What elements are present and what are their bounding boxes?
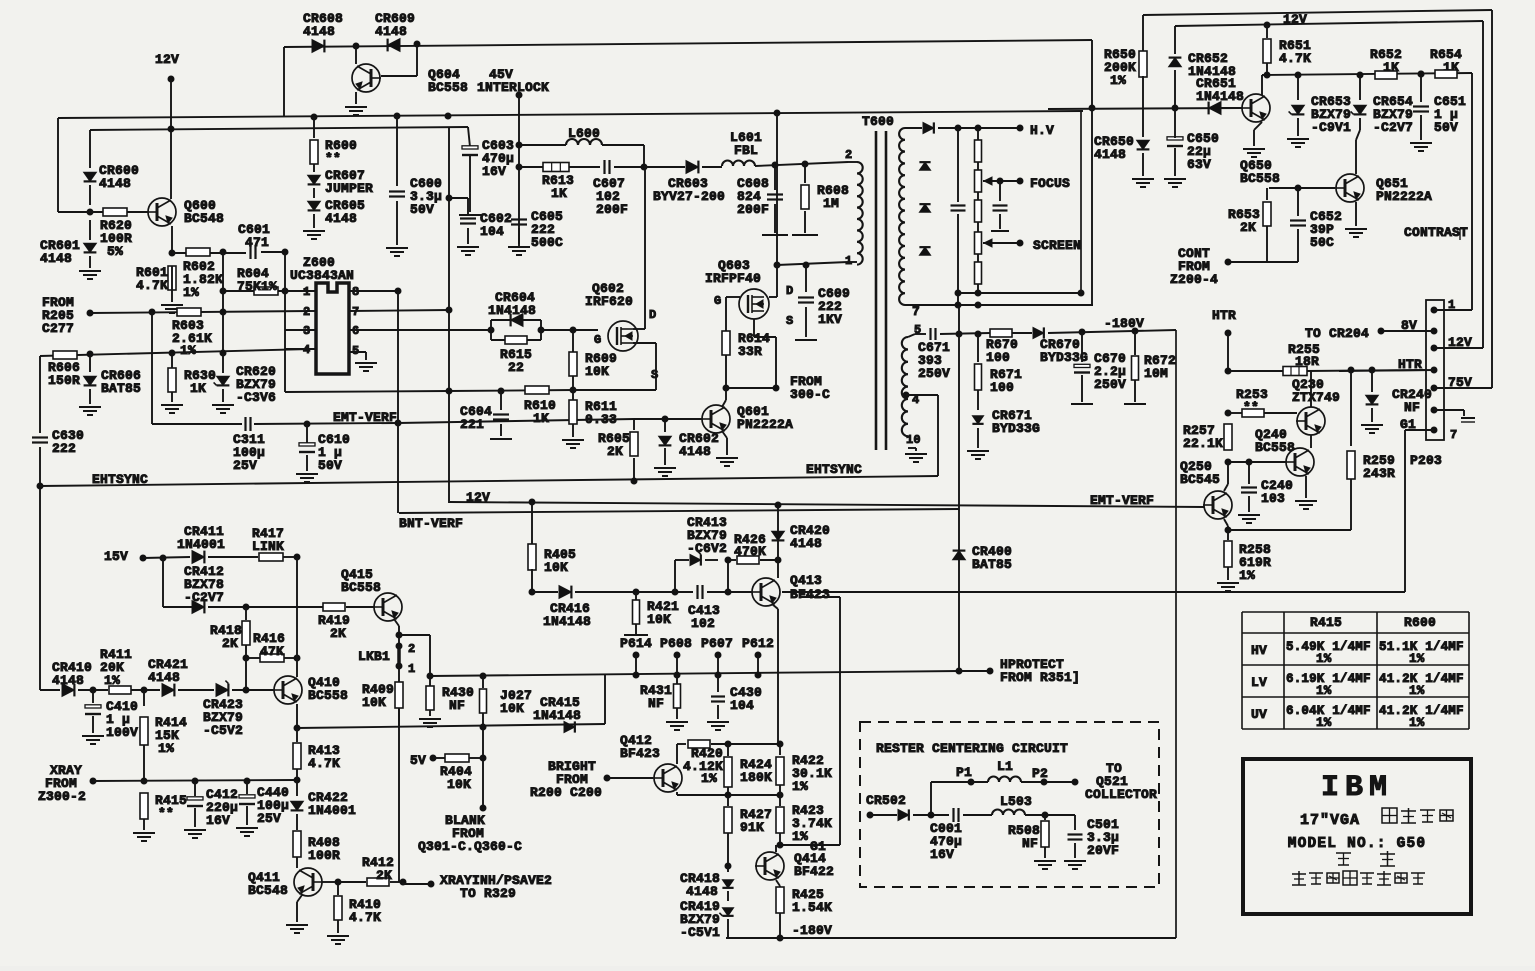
svg-text:NF: NF xyxy=(1022,836,1038,851)
svg-text:100R: 100R xyxy=(308,848,340,863)
svg-text:**: ** xyxy=(325,151,341,166)
svg-text:10K: 10K xyxy=(647,612,671,627)
svg-text:3: 3 xyxy=(303,324,310,338)
svg-text:NF: NF xyxy=(449,698,465,713)
svg-text:2K: 2K xyxy=(1240,220,1256,235)
svg-text:18R: 18R xyxy=(1295,354,1319,369)
svg-text:200F: 200F xyxy=(596,202,628,217)
svg-text:1%: 1% xyxy=(1316,652,1332,666)
svg-text:BF422: BF422 xyxy=(794,864,834,879)
svg-text:103: 103 xyxy=(1261,491,1285,506)
svg-text:7: 7 xyxy=(912,304,920,319)
svg-text:1: 1 xyxy=(408,662,415,676)
svg-text:HTR: HTR xyxy=(1212,308,1236,323)
svg-text:LINK: LINK xyxy=(252,539,284,554)
svg-text:2K: 2K xyxy=(222,636,238,651)
svg-text:NF: NF xyxy=(648,696,664,711)
svg-text:1%: 1% xyxy=(1239,568,1255,583)
svg-text:-C3V6: -C3V6 xyxy=(236,390,276,405)
svg-text:1%: 1% xyxy=(104,673,120,688)
svg-text:CONTRAST: CONTRAST xyxy=(1404,225,1468,240)
svg-text:R200 C200: R200 C200 xyxy=(530,785,602,800)
svg-text:BC545: BC545 xyxy=(1180,472,1220,487)
svg-text:250V: 250V xyxy=(1094,377,1126,392)
svg-text:FROM R351]: FROM R351] xyxy=(1000,670,1080,685)
svg-text:4148: 4148 xyxy=(790,536,822,551)
svg-text:1N4148: 1N4148 xyxy=(543,614,591,629)
svg-text:250V: 250V xyxy=(918,366,950,381)
svg-text:IRF620: IRF620 xyxy=(585,294,633,309)
svg-text:10M: 10M xyxy=(1144,366,1168,381)
svg-text:100V: 100V xyxy=(106,725,138,740)
svg-text:L503: L503 xyxy=(1000,794,1032,809)
svg-text:R600: R600 xyxy=(1404,615,1436,630)
svg-text:1: 1 xyxy=(845,254,852,268)
svg-text:BC548: BC548 xyxy=(184,211,224,226)
svg-text:17"VGA: 17"VGA xyxy=(1300,812,1360,829)
svg-text:FBL: FBL xyxy=(734,143,758,158)
svg-text:16V: 16V xyxy=(206,813,230,828)
svg-text:1K: 1K xyxy=(551,186,567,201)
svg-text:1K: 1K xyxy=(533,411,549,426)
svg-text:91K: 91K xyxy=(740,820,764,835)
svg-text:4148: 4148 xyxy=(40,251,72,266)
svg-text:10K: 10K xyxy=(447,777,471,792)
svg-text:5V: 5V xyxy=(410,753,426,768)
svg-text:EMT-VERF: EMT-VERF xyxy=(333,410,397,425)
svg-text:**: ** xyxy=(158,806,174,821)
svg-text:JUMPER: JUMPER xyxy=(325,181,373,196)
svg-text:-C2V7: -C2V7 xyxy=(1373,120,1413,135)
svg-text:12V: 12V xyxy=(155,52,179,67)
svg-text:500C: 500C xyxy=(531,235,563,250)
svg-text:Q301-C.Q360-C: Q301-C.Q360-C xyxy=(418,839,522,854)
svg-text:1KV: 1KV xyxy=(818,312,842,327)
svg-text:UC3843AN: UC3843AN xyxy=(290,268,354,283)
svg-text:470K: 470K xyxy=(734,544,766,559)
svg-text:16V: 16V xyxy=(482,164,506,179)
svg-text:100: 100 xyxy=(986,350,1010,365)
svg-text:-C5V1: -C5V1 xyxy=(680,925,720,940)
svg-text:PN2222A: PN2222A xyxy=(737,417,793,432)
svg-text:1%: 1% xyxy=(792,779,808,794)
svg-text:50V: 50V xyxy=(1434,120,1458,135)
svg-text:1%: 1% xyxy=(1409,684,1425,698)
svg-text:4.7K: 4.7K xyxy=(349,910,381,925)
svg-text:Z200-4: Z200-4 xyxy=(1170,272,1218,287)
svg-text:100: 100 xyxy=(990,380,1014,395)
svg-text:6: 6 xyxy=(352,324,359,338)
svg-text:P607: P607 xyxy=(701,636,733,651)
svg-text:-180V: -180V xyxy=(1104,316,1144,331)
svg-text:221: 221 xyxy=(460,417,484,432)
svg-text:PN2222A: PN2222A xyxy=(1376,189,1432,204)
svg-text:63V: 63V xyxy=(1187,157,1211,172)
svg-text:22: 22 xyxy=(508,360,524,375)
svg-text:C277: C277 xyxy=(42,321,74,336)
svg-text:10K: 10K xyxy=(585,364,609,379)
svg-text:G: G xyxy=(714,294,721,308)
svg-text:IBM: IBM xyxy=(1321,771,1393,805)
svg-text:2K: 2K xyxy=(376,868,392,883)
svg-text:75K1%: 75K1% xyxy=(237,279,277,294)
svg-text:R415: R415 xyxy=(1310,615,1342,630)
svg-text:BYD33G: BYD33G xyxy=(1040,350,1088,365)
svg-text:4148: 4148 xyxy=(303,24,335,39)
svg-text:MODEL NO.: G50: MODEL NO.: G50 xyxy=(1288,836,1427,852)
svg-text:1%: 1% xyxy=(183,285,199,300)
svg-text:10K: 10K xyxy=(544,560,568,575)
svg-text:5%: 5% xyxy=(107,244,123,259)
svg-text:7: 7 xyxy=(1450,428,1457,442)
svg-text:1%: 1% xyxy=(158,741,174,756)
svg-text:L1: L1 xyxy=(997,759,1013,774)
svg-text:-C2V7: -C2V7 xyxy=(184,590,224,605)
svg-text:4148: 4148 xyxy=(325,211,357,226)
svg-text:P614: P614 xyxy=(620,636,652,651)
svg-text:33R: 33R xyxy=(738,344,762,359)
svg-text:BAT85: BAT85 xyxy=(972,557,1012,572)
svg-text:1%: 1% xyxy=(1409,652,1425,666)
svg-text:2: 2 xyxy=(408,642,415,656)
svg-text:BC548: BC548 xyxy=(248,883,288,898)
svg-text:TO R329: TO R329 xyxy=(460,886,516,901)
svg-text:5: 5 xyxy=(352,344,359,358)
svg-text:UV: UV xyxy=(1251,707,1267,722)
svg-text:20VF: 20VF xyxy=(1087,843,1119,858)
svg-text:NF: NF xyxy=(1404,400,1420,415)
svg-text:1M: 1M xyxy=(823,196,839,211)
svg-text:15V: 15V xyxy=(104,549,128,564)
svg-text:1%: 1% xyxy=(1316,716,1332,730)
svg-text:4148: 4148 xyxy=(99,176,131,191)
svg-text:IRFPF40: IRFPF40 xyxy=(705,271,761,286)
svg-text:FOCUS: FOCUS xyxy=(1030,176,1070,191)
svg-text:1N4148: 1N4148 xyxy=(533,708,581,723)
svg-text:HV: HV xyxy=(1251,643,1267,658)
svg-text:BYV27-200: BYV27-200 xyxy=(653,189,725,204)
svg-text:BC558: BC558 xyxy=(1255,440,1295,455)
svg-text:50C: 50C xyxy=(1310,235,1334,250)
svg-text:1NTERLOCK: 1NTERLOCK xyxy=(477,80,549,95)
svg-text:EHTSYNC: EHTSYNC xyxy=(806,462,862,477)
svg-text:S: S xyxy=(786,314,793,328)
svg-text:RESTER CENTERING CIRCUIT: RESTER CENTERING CIRCUIT xyxy=(876,741,1068,756)
svg-text:1%: 1% xyxy=(1110,73,1126,88)
svg-text:300-C: 300-C xyxy=(790,387,830,402)
svg-text:4148: 4148 xyxy=(679,444,711,459)
svg-text:200F: 200F xyxy=(737,202,769,217)
svg-text:10: 10 xyxy=(906,433,921,447)
svg-text:1%: 1% xyxy=(1316,684,1332,698)
svg-text:TO CR204: TO CR204 xyxy=(1305,326,1369,341)
svg-text:BC558: BC558 xyxy=(341,580,381,595)
svg-text:104: 104 xyxy=(480,224,504,239)
svg-text:4148: 4148 xyxy=(686,884,718,899)
svg-text:CR502: CR502 xyxy=(866,793,906,808)
svg-text:4.7K: 4.7K xyxy=(1279,51,1311,66)
svg-text:SCREEN: SCREEN xyxy=(1033,238,1081,253)
svg-text:1%: 1% xyxy=(180,343,196,358)
svg-text:1%: 1% xyxy=(792,829,808,844)
svg-text:180K: 180K xyxy=(740,770,772,785)
svg-text:LKB1: LKB1 xyxy=(358,649,390,664)
svg-text:BC558: BC558 xyxy=(1240,171,1280,186)
svg-text:4.7K: 4.7K xyxy=(136,278,168,293)
svg-text:COLLECTOR: COLLECTOR xyxy=(1085,787,1157,802)
svg-text:1K: 1K xyxy=(190,381,206,396)
svg-text:P1: P1 xyxy=(956,765,972,780)
svg-text:Q413: Q413 xyxy=(790,573,822,588)
svg-text:-180V: -180V xyxy=(792,923,832,938)
svg-text:150R: 150R xyxy=(48,373,80,388)
svg-text:104: 104 xyxy=(730,698,754,713)
svg-text:12V: 12V xyxy=(1283,12,1307,27)
svg-text:25V: 25V xyxy=(257,811,281,826)
svg-text:P203: P203 xyxy=(1410,453,1442,468)
svg-text:BF423: BF423 xyxy=(790,587,830,602)
svg-text:Z300-2: Z300-2 xyxy=(38,789,86,804)
svg-text:1.54K: 1.54K xyxy=(792,900,832,915)
svg-text:D: D xyxy=(786,284,793,298)
svg-text:102: 102 xyxy=(691,616,715,631)
svg-text:1N4001: 1N4001 xyxy=(308,803,356,818)
svg-text:H.V: H.V xyxy=(1030,123,1054,138)
svg-text:25V: 25V xyxy=(233,458,257,473)
svg-text:1%: 1% xyxy=(1409,716,1425,730)
svg-text:2: 2 xyxy=(303,305,310,319)
svg-text:P608: P608 xyxy=(660,636,692,651)
svg-text:50V: 50V xyxy=(318,458,342,473)
svg-text:4148: 4148 xyxy=(375,24,407,39)
svg-text:47K: 47K xyxy=(260,644,284,659)
svg-text:4148: 4148 xyxy=(52,673,84,688)
svg-text:BF423: BF423 xyxy=(620,746,660,761)
svg-text:LV: LV xyxy=(1251,675,1267,690)
svg-text:1: 1 xyxy=(303,285,310,299)
svg-text:2: 2 xyxy=(845,148,852,162)
svg-text:-C5V2: -C5V2 xyxy=(203,723,243,738)
svg-text:G: G xyxy=(594,333,601,347)
svg-text:-C6V2: -C6V2 xyxy=(687,541,727,556)
svg-text:D: D xyxy=(649,308,656,322)
svg-text:12V: 12V xyxy=(466,490,490,505)
svg-text:4148: 4148 xyxy=(148,670,180,685)
svg-text:22.1K: 22.1K xyxy=(1183,436,1223,451)
svg-text:8: 8 xyxy=(352,285,359,299)
svg-text:BYD33G: BYD33G xyxy=(992,421,1040,436)
svg-text:7: 7 xyxy=(352,305,359,319)
svg-text:10K: 10K xyxy=(362,695,386,710)
svg-text:ZTX749: ZTX749 xyxy=(1292,390,1340,405)
svg-text:1%: 1% xyxy=(701,771,717,786)
svg-text:4.7K: 4.7K xyxy=(308,756,340,771)
svg-text:T600: T600 xyxy=(862,114,894,129)
svg-text:222: 222 xyxy=(52,441,76,456)
svg-text:1N4001: 1N4001 xyxy=(177,537,225,552)
svg-text:P612: P612 xyxy=(742,636,774,651)
svg-text:4148: 4148 xyxy=(1094,147,1126,162)
svg-text:P2: P2 xyxy=(1032,766,1048,781)
svg-text:-C9V1: -C9V1 xyxy=(1311,120,1351,135)
svg-text:50V: 50V xyxy=(410,202,434,217)
svg-text:471: 471 xyxy=(245,235,269,250)
svg-text:BC558: BC558 xyxy=(428,80,468,95)
svg-text:2K: 2K xyxy=(607,444,623,459)
svg-text:4: 4 xyxy=(303,343,310,357)
svg-text:S: S xyxy=(651,368,658,382)
svg-text:BC558: BC558 xyxy=(308,688,348,703)
svg-text:1N4148: 1N4148 xyxy=(488,303,536,318)
svg-text:**: ** xyxy=(1243,400,1259,415)
svg-text:16V: 16V xyxy=(930,847,954,862)
svg-text:BNT-VERF: BNT-VERF xyxy=(399,516,463,531)
svg-text:0.33: 0.33 xyxy=(585,412,617,427)
svg-text:2K: 2K xyxy=(330,626,346,641)
svg-text:BAT85: BAT85 xyxy=(101,381,141,396)
svg-text:10K: 10K xyxy=(500,701,524,716)
svg-text:243R: 243R xyxy=(1363,466,1395,481)
